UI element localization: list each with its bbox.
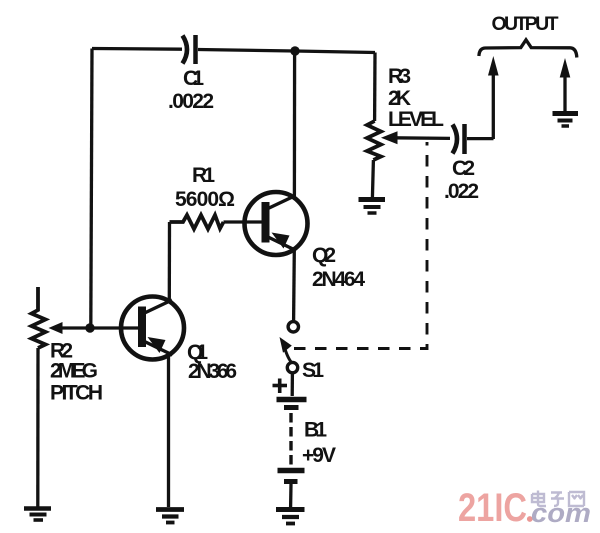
svg-text:2N464: 2N464 (312, 268, 365, 291)
transistor Q1 (121, 297, 237, 384)
wire top left segment (92, 47, 182, 51)
ground below R2 (24, 509, 51, 521)
brace over output terminals (479, 40, 577, 58)
wire R3 top vertical (373, 53, 377, 122)
svg-text:2MEG: 2MEG (50, 360, 98, 383)
ground below R3 (359, 200, 386, 214)
wire left vertical (91, 49, 92, 329)
wire R1 to Q2 base (224, 220, 262, 223)
wire battery bottom (289, 484, 293, 507)
wire Q2 collector vertical (293, 51, 297, 197)
wire R2 bottom (36, 348, 40, 507)
svg-text:PITCH: PITCH (50, 382, 103, 405)
wire Q2 emitter down to S1 (292, 250, 296, 321)
svg-text:com: com (531, 498, 591, 528)
potentiometer R3 (367, 65, 444, 160)
svg-text:5600Ω: 5600Ω (175, 188, 235, 211)
transistor Q2 (245, 192, 366, 291)
wire Q1 emitter down (167, 356, 170, 508)
svg-text:.022: .022 (444, 180, 479, 203)
svg-text:B1: B1 (304, 419, 327, 442)
svg-text:+9V: +9V (302, 444, 336, 467)
wire top right segment (198, 50, 375, 53)
wire R3 wiper to C2 (393, 136, 450, 140)
svg-text:C1: C1 (183, 67, 204, 90)
ground below Q1 emitter (156, 510, 184, 523)
potentiometer R2 (32, 287, 104, 405)
node junction at C1/Q2 collector (290, 46, 299, 55)
watermark dot (527, 516, 533, 522)
switch S1 (280, 322, 325, 382)
battery B1 (273, 374, 337, 482)
ground below right output arrow (553, 114, 579, 127)
resistor R1 (170, 164, 236, 229)
wire Q1 base to R2 wiper (60, 326, 138, 329)
capacitor C2 (444, 124, 479, 203)
wire dashed S1 to R3 wiper (gang line) (294, 142, 427, 349)
svg-text:21IC: 21IC (458, 486, 527, 530)
svg-text:R3: R3 (388, 65, 411, 88)
svg-text:2N366: 2N366 (188, 360, 237, 383)
node junction at left vertical / Q1 base (85, 323, 94, 332)
svg-text:R1: R1 (192, 164, 215, 187)
wire R1 left down to Q1 collector (168, 222, 171, 301)
svg-text:2K: 2K (388, 87, 411, 110)
svg-text:S1: S1 (302, 359, 324, 382)
svg-text:Q2: Q2 (312, 244, 336, 267)
output arrow right (560, 58, 571, 112)
svg-text:C2: C2 (452, 157, 475, 180)
svg-text:OUTPUT: OUTPUT (492, 13, 559, 35)
watermark chinese 电子网 (532, 491, 584, 507)
svg-text:LEVEL: LEVEL (388, 108, 444, 131)
wire R3 bottom (372, 160, 373, 198)
wire C2 to output arrow (467, 137, 494, 140)
capacitor C1 (168, 35, 214, 113)
ground below battery (276, 510, 305, 524)
output arrow left (488, 56, 499, 139)
svg-text:.0022: .0022 (168, 90, 214, 113)
